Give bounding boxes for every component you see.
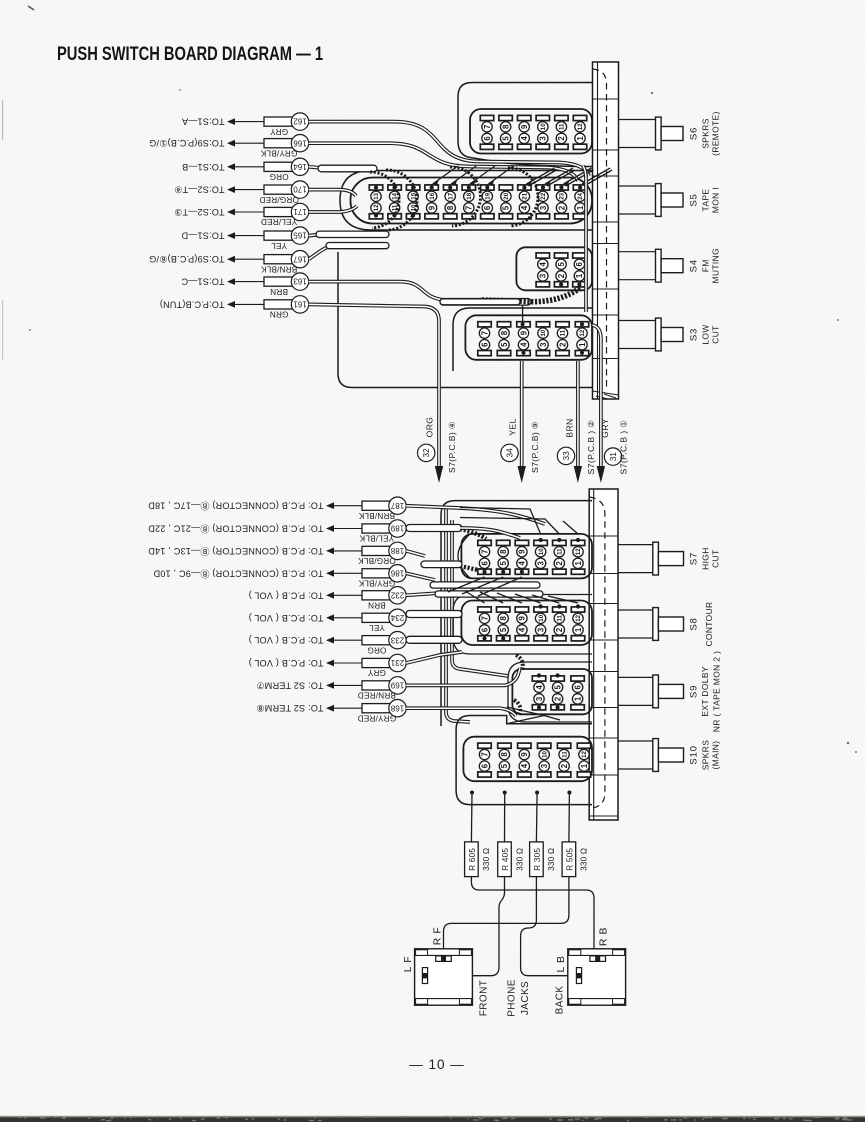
switch S7 body: [461, 534, 592, 579]
svg-text:TO: S2 TERM⑧: TO: S2 TERM⑧: [256, 703, 323, 713]
S7 pin pair 6/7: [478, 540, 491, 574]
svg-text:188: 188: [390, 546, 404, 555]
svg-text:10: 10: [540, 329, 547, 336]
svg-text:R F: R F: [433, 927, 444, 946]
crossing wires above S10: [507, 707, 560, 724]
LB pin: [576, 968, 581, 984]
svg-text:(REMOTE): (REMOTE): [711, 111, 721, 156]
label BACK: [555, 986, 566, 1015]
svg-text:YEL/BLK: YEL/BLK: [359, 534, 394, 543]
wire lug 171 (YEL/RED): [227, 203, 309, 220]
destination label TO:S9(P.C.B)①/G for wire 166: [149, 138, 225, 148]
S6 pin pair 2/11: [555, 115, 568, 149]
S7 pin pair 4/9: [515, 540, 528, 574]
svg-text:R 605: R 605: [468, 848, 477, 871]
destination label TO:S9(P.C.B)⑥/G for wire 167: [149, 254, 225, 264]
wire from lug 169 to S9: [406, 668, 520, 685]
svg-text:11: 11: [557, 614, 564, 621]
function label HIGH CUT: [701, 547, 721, 570]
LF pin: [422, 968, 427, 984]
svg-text:S7(P.C.B) ④: S7(P.C.B) ④: [447, 421, 457, 473]
wire from lug 162 to S5 area: [309, 122, 589, 176]
svg-text:1: 1: [576, 205, 585, 210]
svg-text:163: 163: [293, 277, 307, 286]
svg-text:1: 1: [574, 560, 583, 565]
S10 pin pair 1/12: [577, 743, 590, 777]
wire color label GRY: [367, 668, 386, 677]
svg-text:1: 1: [574, 627, 583, 632]
svg-text:4: 4: [520, 763, 529, 768]
svg-text:S6: S6: [689, 127, 700, 140]
svg-text:TO: P.C.B (CONNECTOR) Ⓑ—17C ,: TO: P.C.B (CONNECTOR) Ⓑ—17C , 18D: [148, 501, 324, 511]
label RB: [599, 927, 610, 946]
function label SPKRS (MAIN): [701, 740, 721, 770]
wire lug 231 (GRY): [326, 654, 406, 671]
S10 pin pair 4/9: [518, 743, 531, 777]
S5 pin pair 12/13: [369, 185, 382, 219]
S5 pin pair 9/16: [425, 185, 438, 219]
S8 housing outline: [453, 595, 592, 655]
svg-text:12: 12: [373, 204, 380, 211]
wire lug 188 (ORG/BLK): [326, 542, 406, 559]
label S5: [689, 193, 700, 206]
svg-text:13: 13: [373, 192, 380, 199]
svg-text:YEL/RED: YEL/RED: [261, 217, 297, 226]
svg-text:PHONE: PHONE: [507, 979, 518, 1017]
svg-text:162: 162: [293, 117, 307, 126]
svg-text:S4: S4: [689, 259, 700, 272]
S5 pin pair 6/19: [481, 185, 494, 219]
destination label TO: P.C.B ( VOL ) for wire 231: [249, 658, 324, 668]
bottom board strip (P.C.B edge): [589, 489, 618, 820]
wire bundle bar from lug 234: [406, 611, 462, 618]
svg-text:170: 170: [293, 185, 307, 194]
S5 pin pair 3/22: [536, 185, 549, 219]
svg-text:6: 6: [480, 763, 489, 768]
resistor R305 330Ω: [530, 842, 557, 877]
svg-text:BRN/BLK: BRN/BLK: [260, 264, 297, 273]
svg-text:ORG: ORG: [425, 417, 435, 438]
svg-text:R 505: R 505: [566, 848, 575, 871]
switch S6 push-button plunger: [619, 117, 684, 150]
RF pin: [436, 956, 452, 962]
svg-text:187: 187: [390, 501, 404, 510]
svg-text:3: 3: [539, 342, 548, 347]
svg-text:TO:S1—C: TO:S1—C: [181, 277, 224, 287]
function label LOW CUT: [701, 324, 721, 344]
svg-text:JACKS: JACKS: [520, 981, 531, 1015]
svg-text:ORG/RED: ORG/RED: [259, 195, 299, 204]
svg-text:GRY/RED: GRY/RED: [358, 713, 397, 722]
svg-text:171: 171: [293, 207, 307, 216]
S4 pin pair 2/5: [554, 253, 567, 287]
svg-text:9: 9: [520, 752, 529, 757]
svg-text:3: 3: [536, 627, 545, 632]
svg-text:2: 2: [555, 560, 564, 565]
S5 pin pair 2/23: [555, 185, 568, 219]
wire lug 166 (GRY/BLK): [227, 135, 309, 152]
svg-text:2: 2: [553, 696, 562, 701]
svg-text:4: 4: [520, 205, 529, 210]
S8 pin pair 4/9: [515, 607, 528, 641]
svg-text:3: 3: [540, 763, 549, 768]
destination label TO:S1—C for wire 163: [181, 277, 224, 287]
S10 pin pair 5/8: [498, 743, 511, 777]
S3 pin pair 2/11: [556, 322, 569, 356]
svg-text:10: 10: [540, 123, 547, 130]
wire from lug 171: [309, 206, 357, 212]
svg-text:1: 1: [573, 696, 582, 701]
wire bundle bar from lug 189: [406, 525, 520, 539]
svg-text:2: 2: [555, 627, 564, 632]
svg-text:5: 5: [557, 261, 566, 266]
svg-text:2: 2: [557, 273, 566, 278]
svg-text:23: 23: [559, 192, 566, 199]
svg-text:TO: P.C.B (CONNECTOR) Ⓑ—9C , 1: TO: P.C.B (CONNECTOR) Ⓑ—9C , 10D: [153, 568, 323, 578]
hatched wires into S7 left pads: [460, 529, 486, 572]
function label EXT DOLBY NR ( TAPE MON 2 ): [700, 651, 722, 732]
S6 pin pair 3/10: [536, 115, 549, 149]
hatched wire into S4: [480, 288, 580, 302]
svg-text:2: 2: [558, 342, 567, 347]
destination label TO: P.C.B (CONNECTOR) Ⓑ—9C , 10D for wire 186: [153, 568, 323, 578]
svg-text:167: 167: [293, 254, 307, 263]
wire color label ORG: [269, 172, 288, 181]
svg-text:5: 5: [501, 136, 510, 141]
svg-text:9: 9: [518, 549, 527, 554]
svg-text:TAPE: TAPE: [701, 189, 711, 212]
svg-text:YEL: YEL: [369, 623, 385, 632]
S6 pin pair 5/8: [499, 115, 512, 149]
svg-text:8: 8: [501, 124, 510, 129]
S3 pin pair 1/12: [575, 322, 588, 356]
destination label TO:S2—T③ for wire 171: [174, 207, 225, 217]
svg-text:168: 168: [390, 703, 404, 712]
svg-text:1: 1: [575, 273, 584, 278]
svg-text:S10: S10: [689, 745, 700, 764]
S6 housing outline: [458, 83, 593, 167]
svg-text:11: 11: [559, 123, 566, 130]
svg-text:165: 165: [293, 231, 307, 240]
resistor R605 330Ω: [465, 842, 492, 877]
label RF: [433, 927, 444, 946]
long wire 32 (ORG) with arrow: [435, 466, 443, 483]
svg-text:18: 18: [466, 192, 473, 199]
svg-text:CUT: CUT: [711, 325, 721, 343]
svg-text:6: 6: [483, 205, 492, 210]
svg-text:2: 2: [557, 205, 566, 210]
fan wires from S6 down to S5 top pads: [526, 168, 612, 186]
svg-text:4: 4: [520, 136, 529, 141]
svg-text:FM: FM: [701, 259, 711, 272]
svg-text:231: 231: [390, 658, 404, 667]
wire from lug 187: [406, 506, 545, 524]
svg-text:9: 9: [428, 205, 437, 210]
switch S4 push-button plunger: [619, 249, 684, 282]
svg-text:GRY: GRY: [270, 127, 289, 136]
S3 pin pair 4/9: [517, 322, 530, 356]
svg-text:330 Ω: 330 Ω: [482, 848, 491, 871]
svg-text:24: 24: [577, 192, 584, 199]
wire R505 to RF: [444, 877, 569, 956]
wire color label BRN/BLK: [358, 511, 395, 520]
svg-text:— 10 —: — 10 —: [409, 1057, 465, 1072]
S9 pin pair 1/6: [571, 676, 584, 710]
fan wires to S7 top pads: [460, 508, 578, 535]
S5 pin pair 5/20: [499, 185, 512, 219]
svg-text:5: 5: [553, 684, 562, 689]
wire from lug 188: [406, 551, 462, 568]
svg-text:12: 12: [575, 548, 582, 555]
wire attach blobs on S7/S8/S9 pads: [482, 538, 580, 710]
svg-text:11: 11: [557, 548, 564, 555]
wire S10 to R405: [504, 793, 506, 842]
svg-text:4: 4: [539, 261, 548, 266]
label S8: [689, 617, 700, 630]
svg-text:17: 17: [447, 192, 454, 199]
wire color label GRY/BLK: [260, 148, 297, 157]
svg-text:FRONT: FRONT: [479, 980, 490, 1016]
wire color label ORG: [367, 645, 386, 654]
switch S9 body (6-pin): [512, 669, 592, 714]
svg-text:186: 186: [390, 568, 404, 577]
S5 housing outline: [340, 171, 593, 231]
wire 31 (GRY) label: [600, 418, 629, 474]
function label SPKRS (REMOTE): [701, 111, 721, 156]
svg-text:7: 7: [480, 752, 489, 756]
svg-text:HIGH: HIGH: [701, 547, 711, 570]
S9 housing outline: [508, 662, 592, 722]
wire color label GRY: [270, 127, 289, 136]
wire lug 165 (YEL): [227, 227, 309, 244]
svg-text:(MAIN): (MAIN): [711, 741, 721, 770]
function label FM MUTING: [701, 248, 721, 283]
svg-text:19: 19: [485, 192, 492, 199]
S8 pin pair 6/7: [478, 607, 491, 641]
S3 pin pair 6/7: [478, 322, 491, 356]
wire 34 (YEL) vertical: [518, 361, 526, 483]
wire color label BRN: [368, 601, 386, 610]
wire R405 to LF: [428, 877, 505, 976]
svg-text:34: 34: [506, 448, 515, 458]
svg-text:BRN: BRN: [565, 418, 575, 437]
wire lug 233 (ORG): [326, 632, 406, 649]
destination label TO: S2 TERM⑧ for wire 168: [256, 703, 323, 713]
vertical harness wires inside bottom housing: [446, 508, 508, 722]
svg-text:MON I: MON I: [711, 187, 721, 213]
wire lug 161 (GRN): [227, 296, 309, 313]
svg-text:10: 10: [538, 614, 545, 621]
bold wire blobs near S9: [514, 655, 523, 716]
S7 pin pair 5/8: [497, 540, 510, 574]
wire 33 (BRN) label: [557, 418, 596, 474]
svg-text:S7(P.C.B ) ②: S7(P.C.B ) ②: [586, 420, 596, 475]
svg-text:CUT: CUT: [711, 549, 721, 567]
switch S5 push-button plunger: [619, 184, 684, 217]
switch S3 body: [465, 315, 592, 360]
wire from lug 163 to S3: [309, 282, 531, 323]
switch S10 body: [463, 737, 592, 782]
svg-text:L B: L B: [556, 955, 567, 972]
wire lug 186 (GRY/BLK): [326, 565, 406, 582]
phone jack LB/RB (back): [568, 949, 626, 1005]
svg-text:32: 32: [422, 448, 431, 458]
svg-text:BACK: BACK: [555, 986, 566, 1015]
svg-text:6: 6: [480, 342, 489, 347]
wire from lug 231: [406, 652, 462, 663]
svg-text:1: 1: [578, 342, 587, 347]
svg-text:7: 7: [480, 331, 489, 335]
svg-text:ORG: ORG: [367, 645, 386, 654]
wire bundle bar from lug 164 (ORG): [309, 165, 377, 172]
S9 pin pair 2/5: [551, 676, 564, 710]
svg-text:TO: P.C.B ( VOL ): TO: P.C.B ( VOL ): [249, 613, 324, 623]
svg-text:4: 4: [518, 627, 527, 632]
wire 32 (ORG) label: [418, 417, 458, 473]
svg-text:10: 10: [538, 548, 545, 555]
svg-text:9: 9: [519, 330, 528, 335]
svg-text:S5: S5: [689, 193, 700, 206]
wire lug 170 (ORG/RED): [227, 181, 309, 198]
fan wires to S7 bottom pads: [448, 577, 522, 596]
wire lug 167 (BRN/BLK): [227, 251, 309, 268]
wire S10 to R305: [535, 793, 538, 842]
wire from lug 170: [309, 190, 356, 196]
wire 33 (BRN) vertical: [574, 361, 582, 483]
svg-text:5: 5: [500, 342, 509, 347]
svg-text:MUTING: MUTING: [711, 248, 721, 283]
svg-text:3: 3: [539, 205, 548, 210]
svg-text:234: 234: [390, 613, 404, 622]
wire from lug 161 turning down (to arrow 32): [309, 304, 439, 470]
wire S10 to R505: [568, 793, 571, 842]
S5 pin pair 11/14: [388, 185, 401, 219]
wire color label YEL: [369, 623, 385, 632]
svg-text:SPKRS: SPKRS: [701, 740, 711, 770]
wire bar into S3 top: [440, 299, 520, 305]
wire from lug 232: [406, 591, 543, 597]
destination label TO: P.C.B (CONNECTOR) Ⓑ—21C , 22D for wire 189: [148, 524, 324, 534]
wire bundle bar from lug 233: [406, 636, 462, 643]
wire R605 to RB: [471, 877, 594, 956]
svg-text:7: 7: [480, 616, 489, 620]
destination label TO: P.C.B (CONNECTOR) Ⓑ—13C , 14D for wire 188: [148, 546, 324, 556]
S6 pin pair 4/9: [518, 115, 531, 149]
S5 pin pair 1/24: [573, 185, 586, 219]
switch S10 push-button plunger: [618, 739, 684, 772]
label S10: [689, 745, 700, 764]
svg-text:S8: S8: [689, 617, 700, 630]
svg-text:YEL: YEL: [271, 241, 287, 250]
wire lug 169 (BRN/RED): [326, 677, 406, 694]
svg-text:5: 5: [499, 560, 508, 565]
fan wires to S5 mid pads: [433, 166, 514, 186]
svg-text:NR ( TAPE MON 2 ): NR ( TAPE MON 2 ): [712, 651, 722, 732]
wire lug 163 (BRN): [227, 273, 309, 290]
svg-text:S3: S3: [689, 328, 700, 341]
svg-text:2: 2: [557, 136, 566, 141]
wire color label GRY/RED: [358, 713, 397, 722]
svg-text:10: 10: [541, 751, 548, 758]
svg-text:BRN/BLK: BRN/BLK: [358, 511, 395, 520]
svg-text:330 Ω: 330 Ω: [580, 848, 589, 871]
svg-text:7: 7: [465, 206, 474, 210]
destination label TO: P.C.B ( VOL ) for wire 234: [249, 613, 324, 623]
wire lug 168 (GRY/RED): [326, 700, 406, 717]
S10 pin pair 6/7: [478, 743, 491, 777]
S4 pin pair 1/6: [573, 253, 586, 287]
svg-text:16: 16: [429, 192, 436, 199]
wire 34 (YEL) label: [501, 418, 540, 473]
switch S9 push-button plunger: [618, 675, 684, 708]
label S7: [689, 552, 700, 565]
S5 pin pair 4/21: [518, 185, 531, 219]
destination label TO:S1—B for wire 164: [182, 162, 225, 172]
wire bundle bar from lug 165 (YEL): [309, 231, 389, 237]
S5 pin pair 7/18: [462, 185, 475, 219]
S9 pin pair 3/4: [532, 676, 545, 710]
svg-text:GRY: GRY: [600, 418, 610, 438]
svg-text:8: 8: [499, 549, 508, 554]
wire color label GRN: [270, 310, 289, 319]
label S4: [689, 259, 700, 272]
svg-text:4: 4: [519, 342, 528, 347]
svg-text:330 Ω: 330 Ω: [515, 848, 524, 871]
svg-text:8: 8: [500, 752, 509, 757]
svg-text:3: 3: [539, 136, 548, 141]
svg-text:R B: R B: [599, 927, 610, 946]
svg-text:4: 4: [518, 560, 527, 565]
wire color label BRN/RED: [358, 691, 396, 700]
svg-text:232: 232: [390, 590, 404, 599]
svg-text:6: 6: [480, 627, 489, 632]
wire R305 to LB: [521, 877, 577, 976]
wire color label YEL/RED: [261, 217, 297, 226]
label FRONT: [479, 980, 490, 1016]
resistor R505 330Ω: [562, 842, 589, 877]
wire color label BRN: [270, 287, 288, 296]
scan specks: [2, 6, 857, 753]
wire color label GRY/BLK: [358, 579, 395, 588]
label S3: [689, 328, 700, 341]
switch S8 body: [461, 601, 592, 646]
page title: [57, 43, 323, 65]
switch S7 push-button plunger: [618, 542, 684, 575]
svg-text:12: 12: [581, 751, 588, 758]
svg-text:20: 20: [503, 192, 510, 199]
switch S5 body (24-pin): [351, 178, 593, 224]
wire 31 (GRY) vertical: [593, 325, 606, 483]
S5 pin pair 8/17: [444, 185, 457, 219]
svg-text:L F: L F: [403, 956, 414, 972]
wire lug 162 (GRY): [227, 113, 309, 130]
S7 pin pair 2/11: [553, 540, 566, 574]
wire S10 to R605: [470, 793, 473, 842]
svg-text:1: 1: [576, 136, 585, 141]
svg-text:ORG: ORG: [269, 172, 288, 181]
resistor R405 330Ω: [498, 842, 525, 877]
svg-text:33: 33: [562, 451, 571, 461]
svg-text:GRY/BLK: GRY/BLK: [260, 148, 297, 157]
svg-text:2: 2: [560, 763, 569, 768]
svg-text:1: 1: [580, 763, 589, 768]
wire color label ORG/RED: [259, 195, 299, 204]
S10 housing outline: [456, 716, 592, 805]
svg-text:GRY/BLK: GRY/BLK: [358, 579, 395, 588]
S8 pin pair 2/11: [553, 607, 566, 641]
svg-text:PUSH SWITCH BOARD DIAGRAM — 1: PUSH SWITCH BOARD DIAGRAM — 1: [57, 43, 323, 65]
svg-text:TO: P.C.B (CONNECTOR) Ⓑ—21C ,: TO: P.C.B (CONNECTOR) Ⓑ—21C , 22D: [148, 524, 324, 534]
